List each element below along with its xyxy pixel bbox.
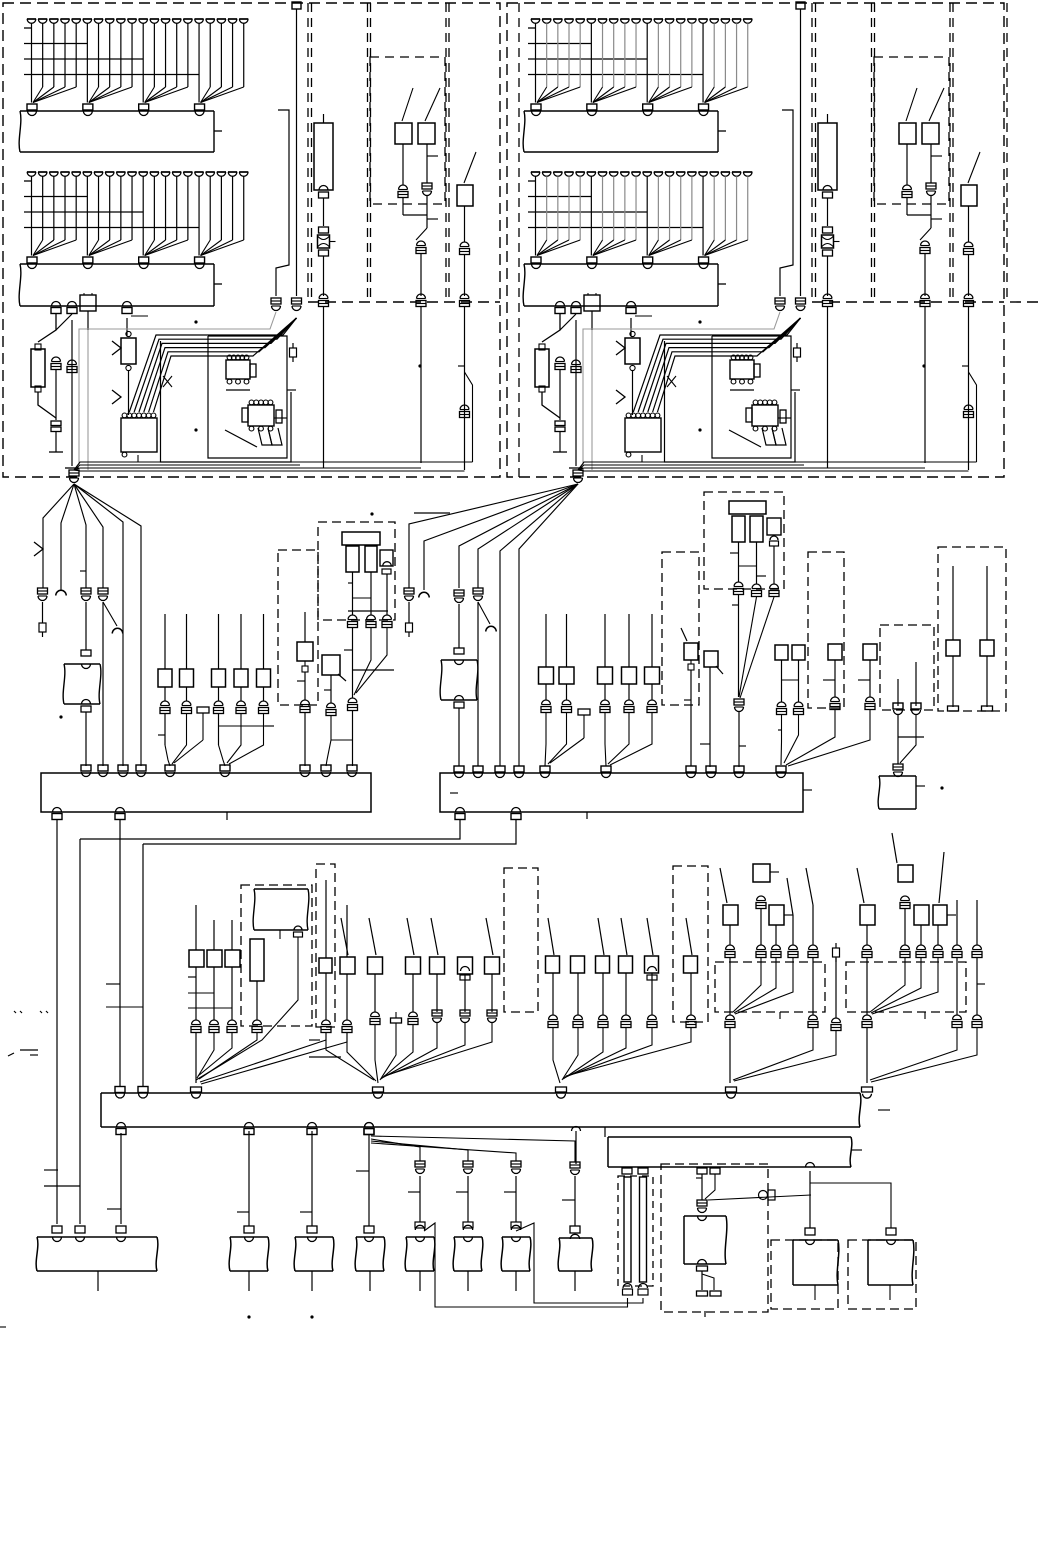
lamp (822, 235, 834, 248)
wire (103, 602, 117, 626)
wire (738, 595, 740, 697)
wire (542, 314, 560, 342)
wire (201, 87, 211, 103)
wire (218, 614, 220, 669)
mark (8, 1053, 14, 1056)
dashed separator (815, 3, 817, 302)
wire (649, 87, 670, 103)
wire (145, 240, 177, 256)
injector terminal (217, 171, 226, 173)
wire (201, 87, 233, 103)
wire group bus (24, 196, 88, 198)
bolt (292, 343, 294, 348)
wire (75, 23, 77, 87)
injector terminal (576, 171, 585, 173)
connector (886, 1228, 896, 1235)
wire (326, 740, 331, 766)
injector terminal (105, 171, 114, 173)
wire loop (633, 318, 800, 412)
injector terminal (743, 171, 752, 173)
wire ticks (44, 1169, 58, 1171)
wire (304, 713, 306, 766)
wire (89, 240, 99, 256)
junction box A (41, 773, 371, 812)
injector terminal (116, 18, 125, 20)
wire (593, 240, 636, 256)
dashed separator (311, 3, 313, 302)
wire (590, 176, 592, 240)
connector (432, 1010, 442, 1016)
wire (546, 23, 548, 87)
wire (218, 714, 220, 745)
wire (604, 684, 606, 700)
connector (300, 765, 310, 771)
wire (53, 176, 55, 240)
transistor pair (258, 428, 272, 445)
wire (827, 307, 829, 468)
wire (729, 958, 731, 1015)
wire (812, 958, 814, 1015)
injector terminal (161, 18, 170, 20)
injector terminal (127, 171, 136, 173)
wire (419, 1176, 421, 1222)
wire (85, 712, 87, 766)
wire (739, 597, 757, 697)
distributor box (253, 889, 309, 930)
wire (733, 958, 761, 1012)
wire (784, 715, 799, 763)
dot (418, 364, 421, 367)
wire tick (704, 1311, 706, 1317)
dashed edge (1010, 301, 1042, 303)
harness wire (74, 484, 86, 588)
switch (457, 185, 473, 206)
wire (458, 604, 460, 648)
connector (511, 1161, 521, 1167)
wire (120, 1133, 122, 1224)
wire (952, 566, 954, 640)
wire (630, 318, 632, 336)
injector terminal (72, 171, 81, 173)
actuator box (501, 1237, 531, 1271)
wire (240, 687, 242, 701)
wire (602, 23, 604, 87)
wire group bus (528, 27, 536, 29)
wire (590, 23, 592, 87)
wire tick (214, 130, 222, 132)
connector (52, 302, 61, 307)
dashed enclosure (661, 1164, 768, 1312)
dashed enclosure (618, 1176, 653, 1286)
wire (577, 973, 579, 1015)
wire (64, 23, 66, 87)
wire (416, 228, 427, 240)
relay (622, 667, 637, 684)
connector (415, 1225, 424, 1230)
wire (646, 87, 648, 103)
connector (917, 945, 926, 950)
igniter box (684, 1216, 727, 1264)
actuator box (405, 1237, 435, 1271)
injector terminal (609, 171, 618, 173)
wire (593, 240, 614, 256)
wire (311, 1271, 313, 1291)
wire (550, 738, 584, 763)
wire (651, 614, 653, 667)
connector (734, 582, 743, 587)
harness wire (459, 484, 578, 588)
dashed enclosure (848, 1240, 916, 1309)
connector (893, 764, 903, 770)
injector terminal (38, 18, 47, 20)
ECU IC U1 (121, 418, 157, 452)
wire (827, 256, 829, 296)
wire (55, 370, 57, 420)
wire (646, 176, 648, 240)
wire (436, 974, 438, 1012)
transistor pair (762, 428, 776, 445)
wire (535, 240, 537, 256)
wire (354, 628, 371, 695)
switch (684, 643, 698, 660)
wire (31, 87, 33, 103)
splice connector (191, 1087, 202, 1092)
wire (263, 687, 265, 701)
wire tick (803, 789, 812, 791)
connector (973, 945, 982, 950)
connector (220, 765, 230, 771)
injector terminal (150, 18, 159, 20)
injector terminal (631, 18, 640, 20)
dashed separator (874, 3, 876, 302)
wire (537, 87, 569, 103)
flat terminal (697, 1266, 708, 1271)
wire (705, 1174, 715, 1199)
dashed separator (811, 3, 813, 302)
injector terminal (676, 18, 685, 20)
wire (900, 715, 916, 763)
wire (897, 679, 899, 706)
connector (643, 104, 653, 110)
wire (566, 614, 568, 667)
injector terminal (576, 18, 585, 20)
dot (922, 364, 925, 367)
wire (198, 176, 200, 240)
connector (53, 808, 62, 813)
coil primary (365, 546, 377, 572)
connector (383, 562, 392, 566)
wire (164, 614, 166, 669)
splice connector (726, 1087, 737, 1092)
wire (568, 176, 570, 240)
wire (145, 87, 166, 103)
wire (586, 812, 588, 819)
wire (53, 23, 55, 87)
wire (593, 87, 636, 103)
wire (590, 87, 592, 103)
wire (632, 371, 634, 415)
connector (648, 1015, 657, 1020)
wire (145, 87, 177, 103)
mark (14, 1011, 16, 1013)
connector dome (76, 1237, 85, 1242)
injector terminal (228, 18, 237, 20)
instrument box (440, 660, 478, 700)
wire (792, 915, 794, 945)
wire (775, 925, 777, 945)
wire (42, 602, 44, 618)
wire (231, 967, 233, 1020)
relay (257, 669, 271, 687)
wire group bus (24, 227, 199, 229)
wire (545, 614, 547, 667)
wire (735, 958, 793, 1014)
wire (75, 176, 77, 240)
connector (625, 700, 634, 705)
wire group bus (24, 43, 88, 45)
injector terminal (631, 171, 640, 173)
connector (327, 703, 336, 708)
wire (545, 684, 547, 700)
dashed enclosure (938, 547, 1006, 711)
bolt (408, 618, 410, 623)
wire (33, 240, 76, 256)
wire (835, 958, 837, 1018)
resistor (31, 349, 45, 387)
wire (464, 206, 466, 242)
injector terminal (710, 18, 719, 20)
wire (814, 1285, 816, 1300)
wire (145, 87, 188, 103)
injector terminal (654, 18, 663, 20)
wire (702, 87, 704, 103)
connector (901, 896, 910, 901)
wire (624, 176, 626, 240)
wire (730, 552, 739, 554)
dashed enclosure (504, 868, 538, 1012)
wire (605, 713, 606, 766)
wire group bus (528, 196, 592, 198)
wire (702, 240, 704, 256)
actuator box (294, 1237, 334, 1271)
connector (639, 1284, 648, 1289)
injector terminal (49, 171, 58, 173)
actuator box (453, 1237, 483, 1271)
dashed separator (370, 3, 372, 302)
wire (142, 23, 144, 87)
relay (189, 950, 204, 967)
actuator box (355, 1237, 385, 1271)
relay (539, 667, 554, 684)
connector (572, 1127, 581, 1132)
wire (628, 684, 630, 700)
wire (729, 925, 731, 945)
injector terminal (665, 171, 674, 173)
connector (301, 700, 310, 705)
connector (347, 765, 357, 771)
wire (467, 1176, 469, 1222)
connector (823, 294, 832, 299)
wire (590, 240, 592, 256)
wire (613, 23, 615, 87)
wire (478, 602, 490, 624)
wire (559, 432, 561, 452)
connector (831, 697, 840, 702)
relay (769, 905, 784, 925)
connector (115, 1087, 125, 1093)
wire (952, 656, 954, 707)
injector terminal (27, 18, 36, 20)
connector (757, 945, 766, 950)
connector (192, 1020, 201, 1025)
wire (325, 973, 327, 1020)
wire (827, 198, 829, 226)
connector (52, 1226, 62, 1233)
connector (796, 298, 806, 304)
wire (420, 254, 422, 296)
wire (713, 176, 715, 240)
injector terminal (127, 18, 136, 20)
wire (186, 614, 188, 669)
relay (914, 905, 929, 925)
capacitor (556, 357, 565, 362)
connector (776, 766, 786, 772)
IC U3 (248, 405, 274, 426)
connector (237, 701, 246, 705)
connector (460, 242, 469, 247)
wire (593, 240, 625, 256)
harness wire (74, 484, 141, 766)
wire group bus (528, 227, 703, 229)
connector (82, 700, 91, 705)
wire (71, 320, 73, 466)
dashed inner bottom edge (308, 301, 500, 303)
wire loop (144, 318, 297, 412)
wire (89, 240, 121, 256)
dot (247, 1315, 250, 1318)
connector (321, 765, 331, 771)
harness bundle (74, 462, 473, 470)
wire (145, 240, 155, 256)
wire (187, 23, 189, 87)
connector (460, 294, 469, 299)
injector terminal (698, 18, 707, 20)
bolt (796, 343, 798, 348)
wire (604, 614, 606, 667)
wire tick (106, 983, 120, 985)
injector terminal (38, 171, 47, 173)
connector (117, 1123, 126, 1128)
wire (690, 973, 692, 1015)
junction box C (101, 1093, 861, 1127)
wire (89, 240, 132, 256)
connector (81, 650, 91, 656)
fuse (823, 227, 833, 233)
wire (537, 87, 547, 103)
connector (136, 765, 146, 771)
dashed enclosure (808, 552, 844, 708)
connector (165, 765, 175, 771)
fuse (197, 707, 209, 713)
capacitor (572, 360, 581, 365)
relay (430, 957, 445, 974)
resistor (276, 410, 282, 423)
wire (128, 371, 130, 415)
dome contact (648, 967, 657, 971)
relay (933, 905, 947, 925)
injector terminal (531, 18, 540, 20)
wire (31, 23, 33, 87)
wire (738, 542, 740, 582)
connector (454, 766, 464, 772)
ignition coil (250, 939, 264, 981)
wire (702, 176, 704, 240)
dashed separator (1006, 3, 1008, 302)
mark (0, 1326, 6, 1328)
capacitor (52, 357, 61, 362)
wire (788, 710, 870, 766)
connector (574, 1015, 583, 1020)
wire (920, 228, 931, 240)
wire (368, 1135, 370, 1226)
wire (810, 1183, 891, 1228)
sensor plug (584, 295, 600, 311)
ground wire (583, 312, 780, 466)
wire (641, 455, 643, 462)
dashed separator (445, 3, 447, 302)
wire (346, 905, 348, 957)
wire group bus (528, 180, 536, 182)
wire (89, 87, 132, 103)
coil igniter (767, 518, 781, 535)
wire (705, 87, 737, 103)
harness wire (478, 484, 578, 588)
wire (195, 967, 197, 1020)
wire (872, 958, 938, 1014)
wire (786, 710, 835, 765)
wire (866, 925, 868, 945)
connector (697, 1168, 707, 1174)
resistor (242, 408, 248, 422)
connector (587, 257, 597, 263)
terminal cup (486, 626, 496, 631)
connector (83, 257, 93, 263)
wire fan to bus C mid (375, 1025, 378, 1083)
wire loop (638, 318, 800, 412)
switch lever (647, 918, 653, 955)
injector terminal (194, 18, 203, 20)
coil primary (346, 546, 359, 572)
connector (27, 104, 37, 110)
harness wire (143, 819, 516, 844)
wire (657, 176, 659, 240)
connector (757, 896, 766, 901)
wire (593, 87, 625, 103)
wire loop (139, 318, 297, 412)
wire (153, 23, 155, 87)
connector (549, 1015, 558, 1020)
dashed enclosure (673, 866, 708, 1022)
wire (646, 240, 648, 256)
injector terminal (228, 171, 237, 173)
connector (863, 945, 872, 950)
connector (463, 1225, 472, 1230)
lamp (318, 235, 330, 248)
wire (240, 614, 242, 669)
wire (760, 909, 762, 945)
wire group bus (24, 211, 143, 213)
wire (243, 23, 245, 87)
